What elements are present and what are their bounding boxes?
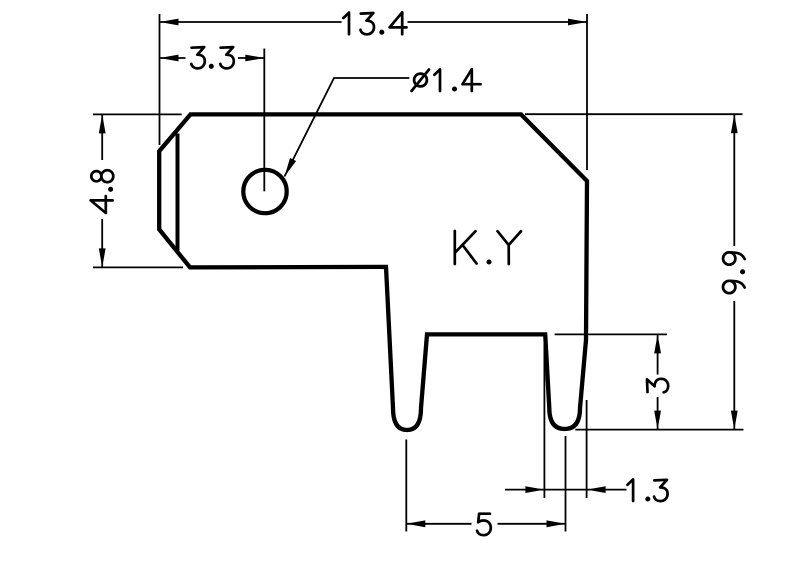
dimension 3.3: line and arrows bbox=[160, 57, 186, 59]
hole circle bbox=[243, 170, 286, 213]
dimension 5: line and arrows bbox=[406, 523, 471, 525]
dimension 9.9: text (rotated) bbox=[723, 252, 745, 293]
dimension 4.8: text (rotated) bbox=[91, 170, 114, 213]
extension line: part right edge top (x=587) bbox=[586, 14, 588, 170]
leader line for hole diameter bbox=[285, 78, 410, 177]
extension line: hole center (x=264.3) bbox=[263, 49, 265, 192]
dimension 3: text (rotated) bbox=[647, 379, 668, 393]
extension line: part right edge lower (x=586.6) bbox=[586, 400, 588, 498]
part outline: tab body with chamfered corner and two prongs bbox=[159, 114, 587, 430]
dimension 3.3: text bbox=[191, 47, 234, 68]
extension line: right prong left edge (x=544.4) bbox=[543, 336, 545, 498]
part marking text K.Y bbox=[455, 231, 521, 264]
dimension 4.8: line and arrows bbox=[101, 114, 103, 160]
extension line: part left edge (x=159.5) bbox=[159, 14, 161, 145]
extension line: prong bottom rightward (y=429.6) bbox=[575, 429, 743, 431]
dimension 1.3: line and outside arrows bbox=[505, 489, 544, 491]
extension line: top edge leftward (y=114.4) bbox=[93, 113, 182, 115]
extension line: top edge rightward (y=114.2) bbox=[525, 113, 743, 115]
fold line on left flange bbox=[176, 134, 180, 251]
extension line: right prong center (x=565.5) bbox=[565, 436, 567, 532]
dimension 5: text bbox=[477, 514, 491, 536]
extension line: notch top rightward (y=334.4) bbox=[555, 333, 667, 335]
dimension 1.3: text bbox=[628, 479, 668, 501]
extension line: left prong center (x=406.3) bbox=[405, 440, 407, 532]
extension line: bottom edge leftward (y=267.4) bbox=[93, 266, 183, 268]
dimension 13.4: text bbox=[343, 12, 406, 34]
dimension 9.9: line and arrows bbox=[733, 114, 735, 246]
hole diameter text: ø1.4 bbox=[414, 74, 427, 87]
dimension 13.4: line and arrows bbox=[160, 21, 342, 23]
dimension 3: line and arrows bbox=[657, 334, 659, 374]
